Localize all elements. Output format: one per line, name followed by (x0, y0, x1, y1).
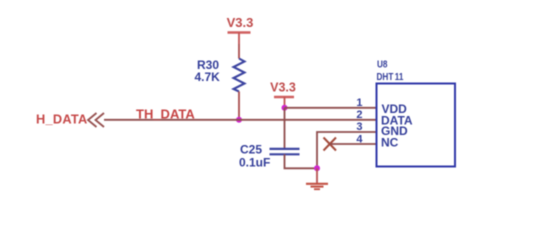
svg-text:0.1uF: 0.1uF (239, 155, 270, 169)
IC U8 DHT11 (377, 84, 456, 167)
junction node (resistor / TH_DATA) (236, 117, 242, 123)
wire TH_DATA (net to pin 2) (104, 119, 377, 121)
no-connect X on pin 4 (324, 138, 337, 151)
wire resistor to node (238, 92, 240, 120)
wire pin 3 GND (317, 132, 377, 168)
svg-text:3: 3 (356, 121, 362, 133)
wire pin 4 NC (330, 143, 377, 145)
svg-text:V3.3: V3.3 (270, 81, 296, 95)
svg-text:H_DATA: H_DATA (36, 112, 88, 127)
wire capacitor bottom to ground node (285, 154, 318, 168)
ground (306, 168, 328, 189)
resistor R30 (234, 59, 245, 92)
svg-text:2: 2 (356, 109, 362, 121)
svg-text:U8: U8 (377, 57, 387, 69)
svg-text:TH_DATA: TH_DATA (136, 106, 195, 121)
power symbol V3.3 (mid) (270, 81, 296, 108)
port H_DATA (36, 112, 104, 127)
svg-text:1: 1 (356, 97, 362, 109)
wire V3.3 to resistor R30 (238, 44, 240, 59)
svg-text:4: 4 (356, 133, 363, 145)
capacitor C25 (270, 149, 300, 154)
power symbol V3.3 (top) (227, 15, 254, 44)
wire VDD net to pin 1 (285, 107, 377, 109)
svg-text:NC: NC (381, 136, 399, 150)
svg-text:V3.3: V3.3 (227, 15, 254, 30)
junction node (GND net) (314, 165, 320, 171)
svg-text:DHT11: DHT11 (377, 70, 404, 82)
wire VDD net down to capacitor C25 (284, 108, 286, 148)
svg-text:4.7K: 4.7K (195, 70, 221, 84)
junction node (VDD net) (282, 105, 288, 111)
